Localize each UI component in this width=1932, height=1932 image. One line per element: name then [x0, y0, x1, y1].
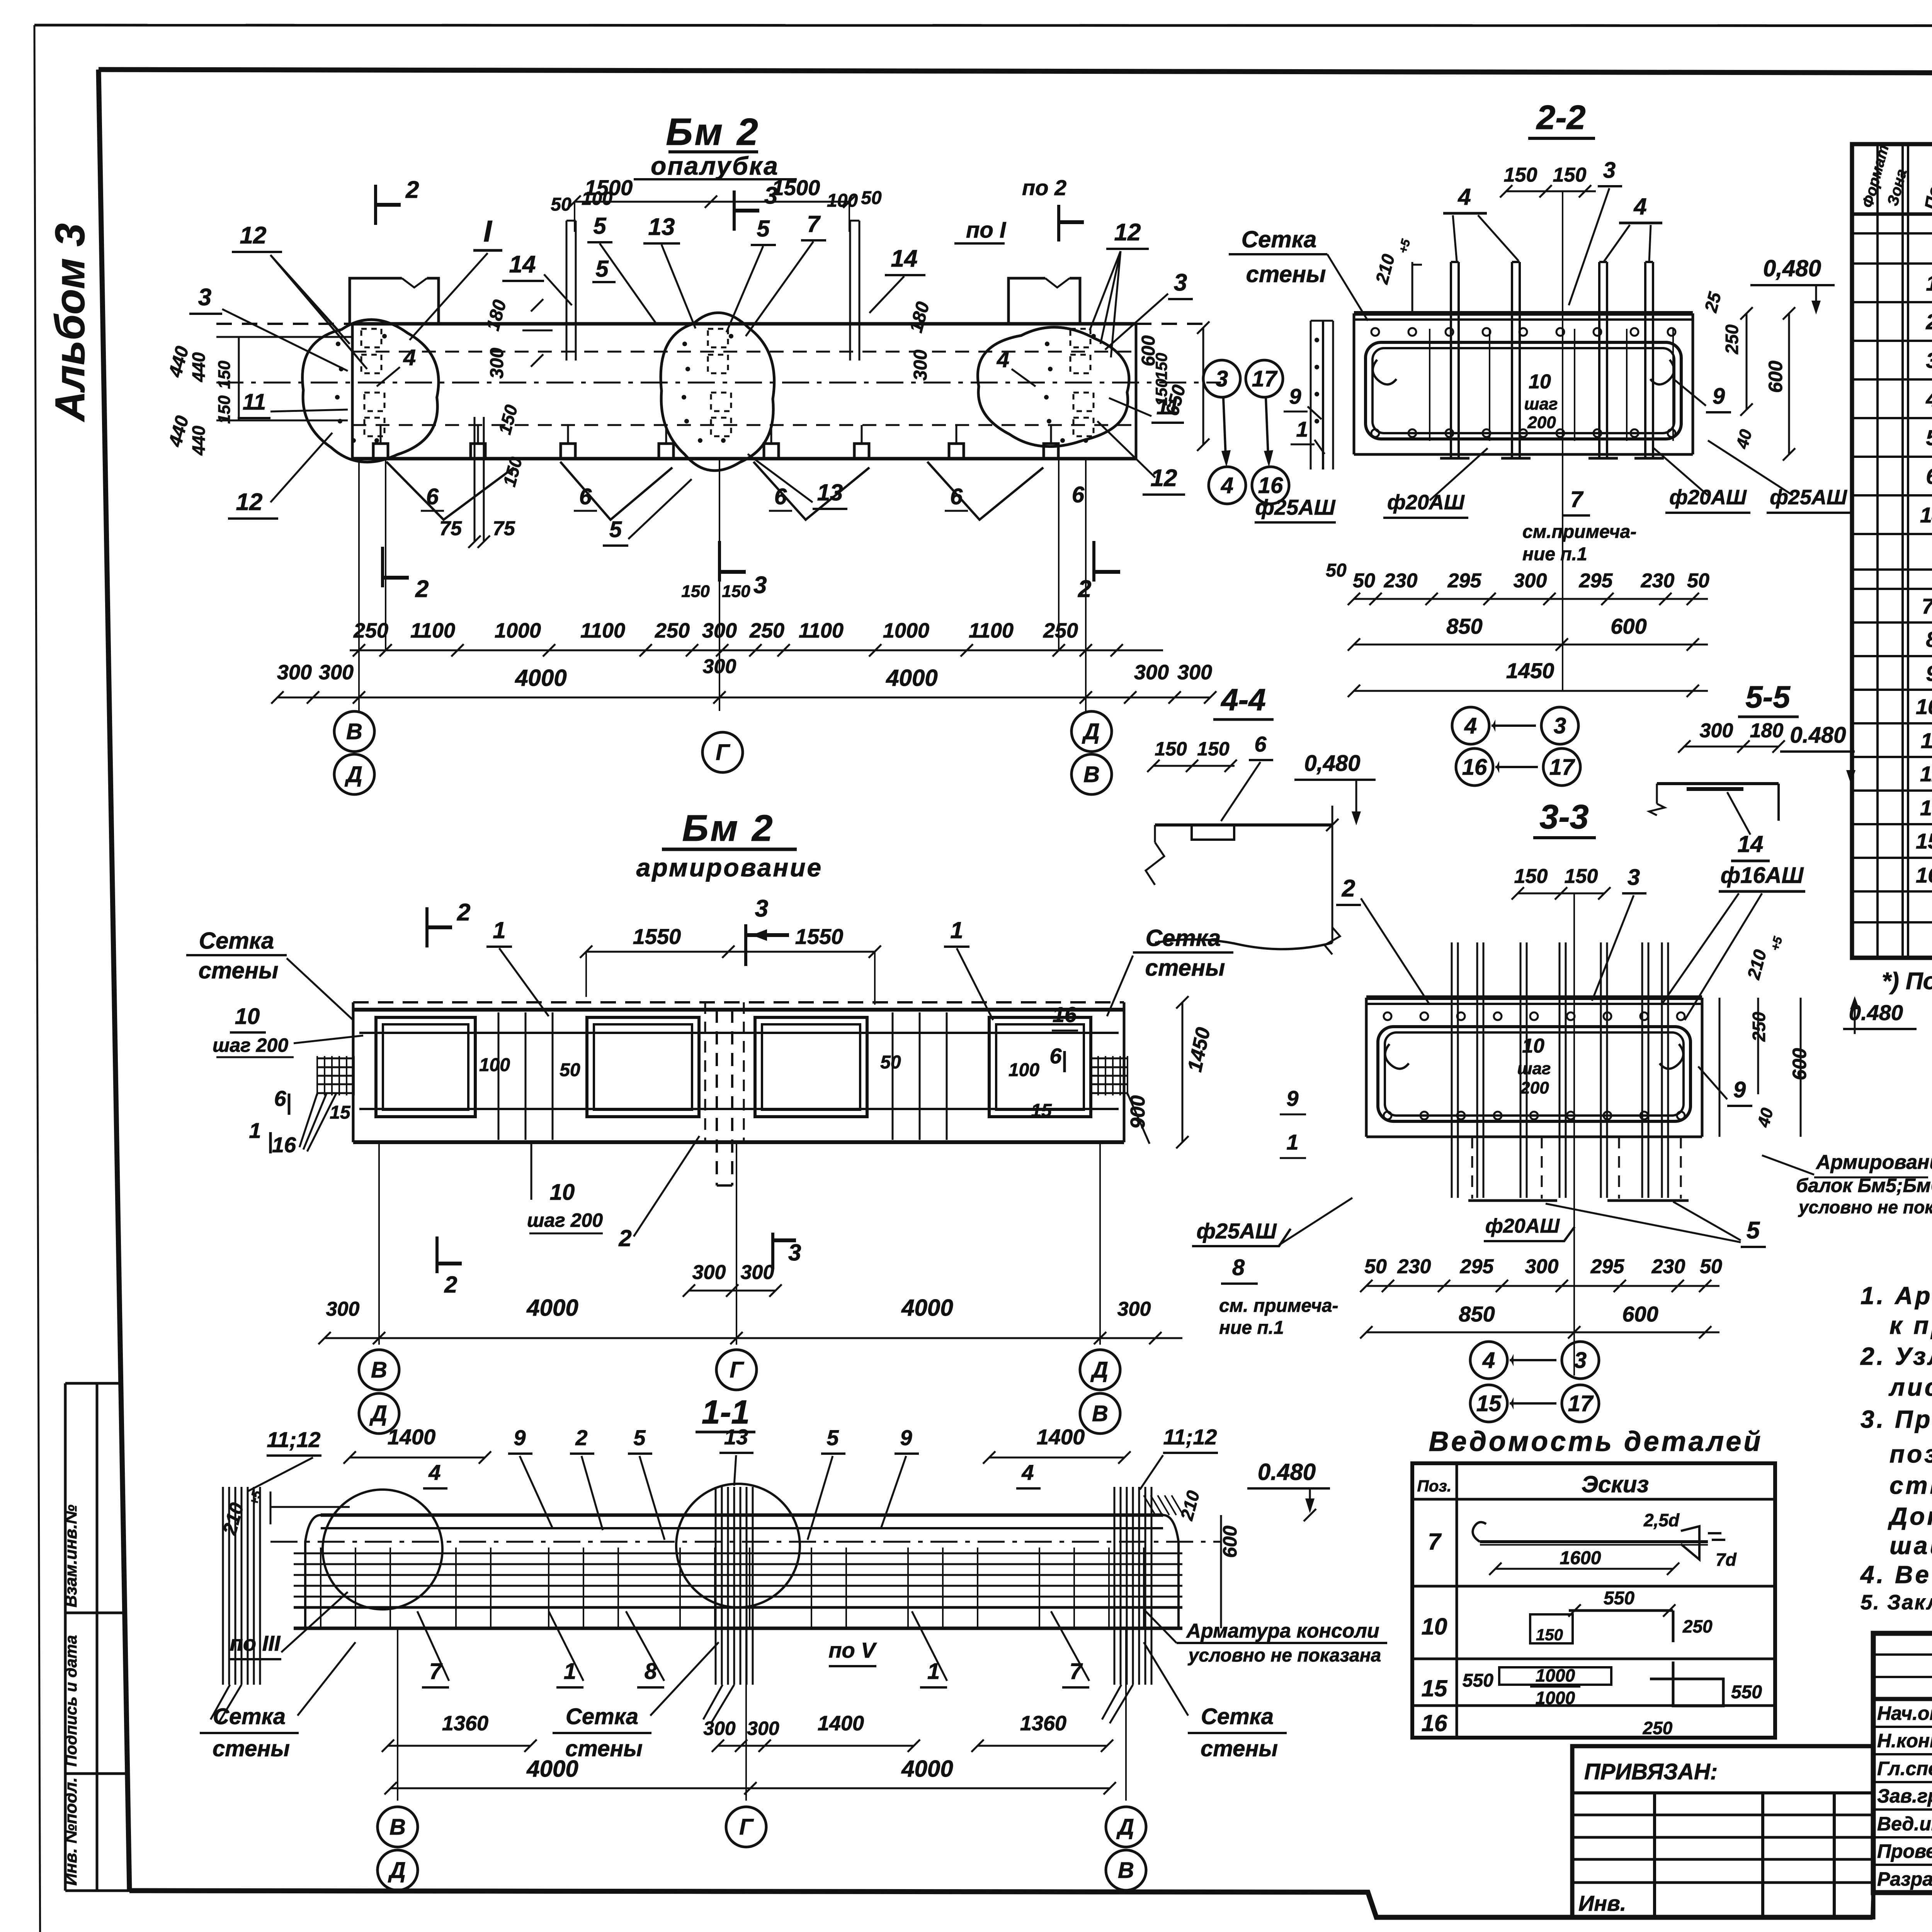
svg-text:3: 3	[1554, 713, 1566, 738]
svg-text:Н.контр.: Н.контр.	[1877, 1730, 1932, 1752]
svg-text:440: 440	[189, 352, 209, 382]
svg-text:1100: 1100	[410, 619, 455, 642]
svg-text:4000: 4000	[901, 1295, 953, 1321]
svg-text:стены: стены	[213, 1736, 290, 1761]
svg-text:300: 300	[1514, 570, 1547, 592]
svg-text:1100: 1100	[580, 619, 625, 642]
svg-text:Альбом 3: Альбом 3	[46, 223, 93, 422]
svg-text:Г: Г	[739, 1815, 754, 1840]
svg-text:50: 50	[861, 188, 882, 208]
svg-text:300: 300	[326, 1298, 360, 1320]
svg-text:12: 12	[240, 222, 267, 249]
svg-text:ф25АШ: ф25АШ	[1770, 486, 1847, 509]
svg-text:50: 50	[551, 194, 571, 215]
svg-text:I: I	[483, 214, 492, 248]
svg-text:13: 13	[817, 480, 843, 505]
svg-text:2: 2	[1342, 875, 1355, 902]
svg-text:Д: Д	[369, 1401, 387, 1426]
svg-text:550: 550	[1463, 1670, 1493, 1691]
svg-text:7d: 7d	[1716, 1549, 1737, 1570]
svg-text:150: 150	[681, 582, 710, 601]
svg-text:295: 295	[1590, 1255, 1625, 1278]
svg-text:1000: 1000	[1536, 1665, 1575, 1685]
svg-text:стены: стены	[1246, 261, 1326, 287]
svg-text:250: 250	[1043, 619, 1078, 642]
svg-text:150: 150	[215, 361, 234, 389]
svg-text:по III: по III	[230, 1631, 281, 1655]
svg-text:9: 9	[1926, 661, 1932, 685]
svg-text:250: 250	[1682, 1616, 1713, 1636]
svg-text:11: 11	[1921, 728, 1932, 753]
svg-text:8: 8	[1926, 627, 1932, 651]
svg-text:3. При устройстве высаженных г: 3. При устройстве высаженных головок в д…	[1861, 1405, 1932, 1433]
svg-text:600: 600	[1765, 361, 1786, 393]
svg-text:150: 150	[1504, 164, 1537, 186]
svg-text:1: 1	[493, 917, 505, 943]
svg-text:12: 12	[1114, 219, 1141, 246]
svg-text:ф20АШ: ф20АШ	[1485, 1215, 1560, 1237]
svg-text:по I: по I	[966, 218, 1007, 243]
svg-text:4000: 4000	[526, 1295, 578, 1321]
svg-text:1: 1	[950, 917, 963, 943]
svg-text:200: 200	[1527, 413, 1556, 432]
svg-text:14: 14	[891, 245, 918, 272]
svg-text:5: 5	[1747, 1217, 1760, 1244]
svg-text:Д: Д	[344, 762, 362, 787]
svg-text:Г: Г	[716, 740, 730, 765]
svg-text:Д: Д	[1082, 719, 1100, 744]
svg-text:шаг 200: шаг 200	[527, 1209, 603, 1231]
svg-text:4: 4	[997, 347, 1009, 372]
svg-text:ф25АШ: ф25АШ	[1255, 495, 1335, 519]
svg-text:см. примеча-: см. примеча-	[1219, 1296, 1338, 1316]
svg-text:9: 9	[514, 1425, 526, 1450]
svg-text:ф20АШ: ф20АШ	[1669, 486, 1747, 509]
svg-text:295: 295	[1460, 1255, 1494, 1278]
svg-text:17: 17	[1252, 366, 1278, 391]
svg-text:Сетка: Сетка	[566, 1704, 638, 1729]
svg-text:4000: 4000	[886, 665, 937, 691]
svg-text:В: В	[346, 719, 362, 744]
svg-text:2,5d: 2,5d	[1643, 1510, 1680, 1530]
svg-text:5: 5	[609, 517, 622, 542]
svg-text:по V: по V	[828, 1638, 877, 1662]
svg-text:Сетка: Сетка	[213, 1704, 286, 1729]
svg-text:16: 16	[1258, 473, 1283, 498]
svg-text:16: 16	[1422, 1710, 1447, 1736]
svg-text:1360: 1360	[1020, 1712, 1066, 1735]
svg-text:300: 300	[910, 350, 931, 381]
svg-text:14: 14	[509, 251, 536, 278]
svg-text:50: 50	[1700, 1255, 1722, 1278]
svg-text:180: 180	[1750, 719, 1784, 742]
svg-text:стены: стены	[1201, 1736, 1278, 1761]
svg-text:3: 3	[1628, 865, 1640, 890]
svg-text:3: 3	[753, 572, 767, 599]
svg-text:550: 550	[1604, 1588, 1634, 1609]
svg-text:Взам.инв.№: Взам.инв.№	[61, 1505, 80, 1607]
svg-text:150: 150	[1565, 865, 1598, 888]
svg-text:Провер.: Провер.	[1877, 1840, 1932, 1862]
svg-text:Вед.инж: Вед.инж	[1877, 1813, 1932, 1835]
svg-text:250: 250	[655, 619, 690, 642]
svg-text:стены: стены	[199, 957, 279, 983]
svg-text:15*: 15*	[1916, 829, 1932, 853]
svg-text:Ведомость деталей: Ведомость деталей	[1429, 1426, 1763, 1457]
svg-text:9: 9	[1713, 384, 1725, 409]
svg-text:300: 300	[1525, 1255, 1559, 1278]
svg-text:В: В	[1118, 1858, 1134, 1883]
svg-text:шаг: шаг	[1524, 395, 1558, 413]
svg-text:Д: Д	[388, 1858, 406, 1883]
svg-text:Арматура консоли: Арматура консоли	[1185, 1620, 1379, 1642]
svg-text:300: 300	[1134, 661, 1169, 684]
svg-text:600: 600	[1622, 1302, 1658, 1326]
svg-text:550: 550	[1731, 1682, 1762, 1702]
svg-text:ф25АШ: ф25АШ	[1196, 1219, 1277, 1243]
svg-text:по 2: по 2	[1022, 175, 1066, 200]
svg-text:10: 10	[235, 1004, 260, 1029]
svg-text:75: 75	[439, 517, 462, 540]
svg-text:условно не показана: условно не показана	[1188, 1645, 1381, 1666]
svg-text:2: 2	[1078, 576, 1091, 602]
svg-text:150: 150	[1536, 1626, 1563, 1644]
svg-text:16: 16	[1053, 1002, 1077, 1027]
svg-text:15: 15	[1031, 1100, 1052, 1121]
svg-text:10*: 10*	[1916, 694, 1932, 719]
svg-text:В: В	[1092, 1401, 1108, 1426]
svg-text:2. Узлы I...III смотрите на ли: 2. Узлы I...III смотрите на листе 33; уз…	[1860, 1342, 1932, 1370]
svg-text:300: 300	[741, 1261, 774, 1284]
svg-text:50: 50	[560, 1060, 580, 1080]
svg-text:условно не показано: условно не показано	[1798, 1197, 1932, 1217]
svg-text:Инв.: Инв.	[1578, 1891, 1626, 1915]
svg-text:Разраб.: Разраб.	[1877, 1868, 1932, 1890]
svg-text:5: 5	[593, 213, 607, 239]
svg-text:1550: 1550	[795, 924, 844, 949]
svg-text:1. Арматуру поз. 7 и 8 привяза: 1. Арматуру поз. 7 и 8 привязать вязальн…	[1861, 1282, 1932, 1310]
svg-text:300: 300	[1177, 661, 1212, 684]
svg-text:5: 5	[595, 256, 609, 282]
svg-text:440: 440	[189, 425, 209, 456]
svg-text:стены: стены	[1145, 955, 1225, 981]
svg-text:2: 2	[1925, 310, 1932, 334]
svg-text:4: 4	[1021, 1460, 1034, 1485]
svg-text:6: 6	[426, 484, 439, 509]
svg-text:4: 4	[1221, 473, 1233, 498]
svg-text:1000: 1000	[495, 619, 541, 642]
svg-text:100: 100	[582, 189, 612, 209]
svg-text:100: 100	[479, 1055, 510, 1075]
svg-text:300: 300	[1117, 1298, 1151, 1320]
svg-text:3: 3	[1926, 348, 1932, 372]
svg-text:1: 1	[1926, 271, 1932, 295]
svg-text:опалубка: опалубка	[651, 151, 779, 180]
svg-text:4. Ведомость расхода стали см.: 4. Ведомость расхода стали см. на листе …	[1860, 1561, 1932, 1588]
svg-text:13: 13	[1920, 796, 1932, 820]
svg-text:3: 3	[1574, 1348, 1587, 1373]
svg-text:150: 150	[1553, 164, 1587, 186]
svg-text:Гл.спец.: Гл.спец.	[1877, 1758, 1932, 1779]
svg-text:Бм 2: Бм 2	[666, 111, 760, 153]
svg-text:В: В	[389, 1815, 406, 1840]
svg-text:6: 6	[774, 484, 787, 509]
svg-text:армирование: армирование	[636, 853, 823, 882]
svg-text:Сетка: Сетка	[1242, 226, 1317, 252]
svg-text:5. Закладные изделия поз.14 ус: 5. Закладные изделия поз.14 установить т…	[1861, 1591, 1932, 1614]
svg-text:Поз.: Поз.	[1417, 1477, 1452, 1495]
svg-text:9: 9	[1289, 384, 1301, 408]
svg-text:300: 300	[692, 1261, 726, 1284]
svg-text:1400: 1400	[1037, 1425, 1085, 1449]
svg-text:230: 230	[1651, 1255, 1685, 1278]
svg-text:150: 150	[1155, 738, 1187, 760]
svg-text:10: 10	[550, 1180, 575, 1205]
svg-text:1: 1	[249, 1118, 261, 1143]
svg-text:150: 150	[1514, 865, 1548, 888]
svg-text:250: 250	[749, 619, 784, 642]
svg-text:шаг 200: шаг 200	[213, 1034, 288, 1056]
svg-text:300: 300	[319, 661, 354, 684]
svg-text:12: 12	[1920, 762, 1932, 786]
svg-text:шайбами 45х45х10.: шайбами 45х45х10.	[1889, 1532, 1932, 1560]
svg-text:1: 1	[1296, 417, 1308, 441]
svg-text:50: 50	[1326, 560, 1347, 581]
svg-text:Армирование: Армирование	[1815, 1151, 1932, 1173]
svg-text:Эскиз: Эскиз	[1582, 1471, 1649, 1497]
svg-text:Сетка: Сетка	[1201, 1704, 1274, 1729]
svg-text:Нач.отд: Нач.отд	[1877, 1702, 1932, 1724]
svg-text:15: 15	[1422, 1675, 1448, 1701]
svg-text:1450: 1450	[1506, 658, 1554, 683]
svg-text:4: 4	[1925, 387, 1932, 411]
svg-text:6: 6	[579, 484, 592, 509]
svg-text:1400: 1400	[818, 1712, 864, 1735]
svg-text:2: 2	[575, 1425, 587, 1450]
svg-text:2: 2	[618, 1225, 631, 1251]
svg-text:3: 3	[1174, 269, 1187, 296]
svg-text:230: 230	[1384, 570, 1418, 592]
svg-text:900: 900	[1127, 1095, 1149, 1129]
svg-text:600: 600	[1611, 614, 1646, 638]
svg-text:230: 230	[1641, 570, 1675, 592]
svg-text:3: 3	[755, 895, 768, 922]
svg-text:3: 3	[1603, 158, 1616, 183]
svg-text:1500: 1500	[772, 175, 820, 200]
svg-text:50: 50	[1353, 570, 1375, 592]
svg-text:3: 3	[788, 1240, 801, 1265]
svg-text:6: 6	[1926, 464, 1932, 488]
svg-text:8: 8	[645, 1659, 657, 1684]
svg-text:Зав.гр.: Зав.гр.	[1877, 1785, 1932, 1807]
svg-text:850: 850	[1446, 614, 1482, 638]
svg-text:300: 300	[1700, 719, 1733, 742]
svg-text:шаг: шаг	[1517, 1059, 1551, 1078]
svg-text:7*: 7*	[1922, 594, 1932, 618]
svg-text:100: 100	[827, 190, 858, 211]
svg-text:11;12: 11;12	[1163, 1425, 1217, 1449]
svg-text:4000: 4000	[515, 665, 566, 691]
svg-text:15: 15	[1476, 1391, 1502, 1416]
svg-text:5: 5	[827, 1425, 839, 1450]
svg-text:4000: 4000	[901, 1756, 953, 1782]
svg-text:10: 10	[1529, 371, 1551, 393]
svg-text:В: В	[1083, 762, 1100, 787]
svg-text:3: 3	[764, 182, 777, 209]
svg-text:Бм 2: Бм 2	[682, 808, 774, 849]
svg-text:4: 4	[1482, 1348, 1495, 1373]
svg-text:Допускается замена высаженных: Допускается замена высаженных головок	[1888, 1502, 1932, 1530]
svg-text:10: 10	[1422, 1614, 1447, 1639]
svg-text:17: 17	[1568, 1391, 1594, 1416]
svg-text:Подпись и дата: Подпись и дата	[62, 1635, 80, 1767]
svg-text:600: 600	[1219, 1526, 1241, 1558]
svg-text:ние п.1: ние п.1	[1522, 544, 1587, 565]
svg-text:295: 295	[1447, 570, 1482, 592]
svg-text:2: 2	[444, 1272, 457, 1298]
svg-text:230: 230	[1397, 1255, 1431, 1278]
svg-text:7: 7	[807, 211, 821, 237]
svg-text:4: 4	[1458, 184, 1471, 210]
svg-text:Инв. №подл.: Инв. №подл.	[61, 1777, 80, 1886]
svg-text:*) Позиции 7;10;15,16 см. ведо: *) Позиции 7;10;15,16 см. ведомость дета…	[1882, 968, 1932, 995]
svg-text:12: 12	[236, 489, 263, 515]
svg-text:9: 9	[1286, 1086, 1298, 1111]
svg-text:Д: Д	[1116, 1815, 1134, 1840]
svg-text:100: 100	[1009, 1060, 1039, 1080]
svg-text:4-4: 4-4	[1220, 682, 1266, 717]
svg-text:7: 7	[1070, 1659, 1083, 1684]
svg-text:Сетка: Сетка	[1146, 925, 1221, 951]
svg-text:1100: 1100	[969, 619, 1014, 642]
svg-text:13: 13	[648, 214, 675, 240]
svg-text:0.480: 0.480	[1790, 723, 1846, 748]
svg-text:14: 14	[1738, 831, 1764, 857]
svg-text:5: 5	[633, 1425, 646, 1450]
svg-text:2: 2	[457, 899, 470, 926]
svg-text:14: 14	[1920, 503, 1932, 527]
svg-text:250: 250	[1722, 324, 1742, 354]
svg-text:13: 13	[724, 1425, 748, 1449]
svg-text:1000: 1000	[1536, 1688, 1575, 1708]
svg-text:11: 11	[1156, 395, 1179, 419]
svg-text:16: 16	[1462, 755, 1487, 780]
svg-text:2: 2	[405, 177, 419, 203]
svg-text:295: 295	[1579, 570, 1613, 592]
svg-text:12: 12	[1151, 465, 1177, 492]
svg-text:6: 6	[274, 1086, 286, 1111]
svg-text:150: 150	[1197, 738, 1230, 760]
svg-text:3: 3	[198, 284, 211, 311]
svg-text:50: 50	[1687, 570, 1709, 592]
svg-text:4: 4	[403, 345, 416, 370]
svg-text:150: 150	[215, 395, 234, 424]
svg-text:4000: 4000	[526, 1756, 578, 1782]
svg-text:600: 600	[1789, 1048, 1810, 1080]
svg-text:5-5: 5-5	[1745, 680, 1791, 714]
svg-text:3-3: 3-3	[1539, 798, 1588, 836]
svg-text:9: 9	[1733, 1077, 1746, 1102]
svg-text:8: 8	[1232, 1255, 1245, 1280]
svg-text:Сетка: Сетка	[199, 928, 274, 954]
svg-text:поз. 7 длина заготовки назнача: поз. 7 длина заготовки назначается в соо…	[1889, 1440, 1932, 1468]
svg-text:15: 15	[330, 1102, 351, 1123]
svg-text:2-2: 2-2	[1536, 98, 1585, 136]
svg-text:9: 9	[900, 1425, 912, 1450]
svg-text:75: 75	[493, 517, 515, 540]
svg-text:Г: Г	[730, 1357, 744, 1383]
svg-text:4: 4	[1464, 713, 1477, 738]
svg-text:0,480: 0,480	[1763, 255, 1821, 281]
svg-text:ПРИВЯЗАН:: ПРИВЯЗАН:	[1584, 1759, 1718, 1784]
svg-text:1360: 1360	[442, 1712, 488, 1735]
svg-text:150: 150	[722, 582, 750, 601]
svg-text:11: 11	[243, 389, 266, 415]
svg-text:200: 200	[1520, 1078, 1549, 1097]
svg-text:5: 5	[1926, 425, 1932, 450]
svg-text:1000: 1000	[883, 619, 929, 642]
svg-text:1100: 1100	[799, 619, 844, 642]
svg-text:0.480: 0.480	[1258, 1459, 1316, 1485]
svg-text:ф16АШ: ф16АШ	[1721, 863, 1804, 888]
svg-text:150: 150	[1152, 353, 1170, 380]
svg-text:к пространственному каркасу КП: к пространственному каркасу КП2.	[1889, 1311, 1932, 1339]
svg-text:6: 6	[1072, 482, 1085, 507]
svg-text:4: 4	[1633, 194, 1646, 219]
svg-text:6: 6	[950, 484, 963, 509]
svg-text:7: 7	[1570, 487, 1584, 512]
svg-text:В: В	[371, 1357, 387, 1383]
svg-text:17: 17	[1549, 755, 1575, 780]
svg-text:6: 6	[1254, 732, 1267, 756]
svg-text:11;12: 11;12	[267, 1427, 320, 1452]
svg-text:0,480: 0,480	[1304, 751, 1360, 776]
svg-text:см.примеча-: см.примеча-	[1522, 522, 1636, 542]
svg-text:5: 5	[757, 216, 770, 241]
svg-text:1600: 1600	[1560, 1548, 1601, 1568]
svg-text:листе 34.: листе 34.	[1888, 1373, 1932, 1401]
svg-text:4: 4	[428, 1460, 440, 1485]
svg-text:1: 1	[1286, 1130, 1298, 1154]
svg-text:300: 300	[703, 1718, 736, 1739]
svg-text:6: 6	[1049, 1044, 1062, 1068]
svg-text:1550: 1550	[633, 924, 681, 949]
svg-text:3: 3	[1216, 366, 1228, 391]
svg-text:2: 2	[415, 576, 429, 602]
svg-text:ф20АШ: ф20АШ	[1387, 491, 1465, 514]
svg-text:300: 300	[747, 1718, 779, 1739]
svg-text:250: 250	[1643, 1718, 1673, 1738]
svg-text:балок Бм5;Бм6: балок Бм5;Бм6	[1796, 1175, 1932, 1196]
svg-text:850: 850	[1459, 1302, 1495, 1326]
svg-text:16: 16	[272, 1133, 296, 1157]
svg-text:Д: Д	[1090, 1357, 1108, 1383]
svg-text:300: 300	[277, 661, 312, 684]
svg-text:1400: 1400	[388, 1425, 436, 1449]
svg-text:ствии с принятой технологией и: ствии с принятой технологией изготовлени…	[1889, 1471, 1932, 1499]
svg-text:50: 50	[1364, 1255, 1387, 1278]
svg-text:10: 10	[1522, 1035, 1544, 1057]
svg-text:7: 7	[1428, 1529, 1442, 1554]
svg-text:ние п.1: ние п.1	[1219, 1318, 1284, 1338]
svg-text:16*: 16*	[1916, 863, 1932, 887]
svg-text:50: 50	[880, 1052, 901, 1073]
